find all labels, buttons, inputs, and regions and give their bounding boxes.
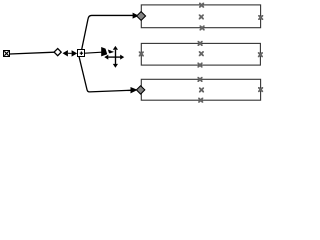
move cursor (4-way arrow): [104, 46, 124, 68]
connection point right edge of shape 1: [258, 15, 263, 20]
connection point right edge of shape 3: [258, 87, 263, 92]
cursor white outline band over middle arrowhead: [105, 44, 109, 58]
branch wire to bottom shape: [79, 55, 131, 92]
rectangle shape 3 (bottom): [141, 79, 260, 100]
connection point right edge of shape 2: [258, 52, 263, 57]
rectangle shape 2 (middle): [141, 43, 260, 65]
connection point top edge of shape 3: [197, 77, 202, 82]
arrowhead toward middle shape: [101, 47, 114, 56]
arrowhead into bottom shape: [131, 87, 138, 93]
connection point bottom edge of shape 3: [198, 98, 203, 103]
rectangle shape 1 (top): [141, 5, 260, 28]
branch wire to top shape: [82, 15, 133, 49]
connection point bottom edge of shape 1: [200, 25, 205, 30]
glue diamond on bottom shape left edge: [136, 86, 144, 94]
branch wire to middle shape: [85, 52, 102, 53]
connection point center of shape 2: [199, 51, 204, 56]
connection point left edge of shape 2: [139, 51, 144, 56]
connection point center of shape 1: [199, 14, 204, 19]
connection point center of shape 3: [199, 87, 204, 92]
begin point handle (square with x): [4, 51, 10, 57]
arrowhead into top shape: [133, 13, 139, 19]
double-headed arrow between diamond and end point: [63, 50, 78, 57]
connection point bottom edge of shape 2: [197, 63, 202, 68]
control handle (white diamond): [54, 49, 61, 56]
move cursor (4-way arrow) white halo: [104, 45, 125, 68]
connection point top edge of shape 1: [199, 3, 204, 8]
end point handle (square with +): [78, 50, 85, 57]
wire from begin point to control diamond: [10, 52, 55, 54]
connection point top edge of shape 2: [198, 41, 203, 46]
glue diamond on top shape left edge: [137, 12, 146, 21]
